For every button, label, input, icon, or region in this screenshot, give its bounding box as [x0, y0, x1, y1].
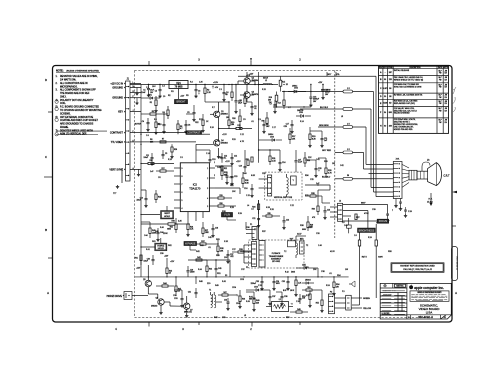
wire cable dashed [334, 71, 336, 239]
inductor L2 box [266, 299, 293, 312]
IC2 pin left 1 [174, 168, 183, 170]
wire q1 base [205, 97, 214, 114]
CRT gnd b [399, 199, 403, 211]
resistor R33x [325, 162, 333, 178]
label scatter12 [286, 317, 289, 319]
value label3 +12V32 [170, 261, 175, 263]
value label .01 [329, 273, 333, 275]
svg-text:METRIC: METRIC [396, 286, 404, 288]
svg-text:8: 8 [182, 176, 183, 178]
resistor R32 [304, 152, 310, 167]
svg-text:VERT SYNC: VERT SYNC [109, 168, 123, 171]
svg-text:180: 180 [226, 117, 229, 119]
svg-text:REPL/ADDED CAP (D/C): REPL/ADDED CAP (D/C) [394, 102, 415, 105]
connector J1 pin 2 [130, 91, 141, 93]
resistor R27 [202, 222, 210, 237]
value label3 C.1348 [218, 157, 222, 159]
svg-text:TTL VIDEO: TTL VIDEO [111, 141, 123, 144]
svg-text:C.15: C.15 [246, 195, 250, 197]
capacitor C26f [342, 218, 351, 233]
resistor R12b [195, 114, 204, 132]
value label3 C.10 [146, 87, 149, 89]
resistor R54x [332, 276, 339, 295]
value label3 R.1621 [168, 159, 172, 161]
diode CR4x [252, 286, 266, 291]
value label3 R.4030 [160, 227, 164, 229]
svg-text:0.1: 0.1 [224, 158, 226, 160]
svg-text:R.39: R.39 [238, 213, 242, 215]
label BRIGHTNESS [358, 228, 376, 232]
value label C39 [372, 209, 377, 211]
svg-text:+11V DC IN: +11V DC IN [110, 83, 123, 86]
resistor R16b [268, 92, 278, 108]
wire mid h1 [235, 85, 237, 91]
svg-text:J: J [133, 110, 134, 112]
pot HORIZ HOLD [155, 243, 167, 251]
connector J2 wire 3 [343, 216, 351, 225]
svg-text:C19: C19 [239, 165, 242, 167]
svg-text:R.45: R.45 [222, 281, 226, 283]
CRT anode wire [422, 160, 430, 172]
svg-text:2: 2 [214, 175, 215, 177]
svg-text:L3: L3 [341, 116, 343, 118]
value label C37 [241, 269, 246, 271]
svg-text:1N914: 1N914 [268, 134, 273, 136]
wire y140 seg [259, 139, 290, 141]
value label 3.3K [224, 241, 229, 243]
capacitor C10 [136, 190, 147, 207]
svg-text:C36: C36 [284, 296, 287, 298]
label GRY YEL top [327, 74, 341, 76]
svg-text:NLP: NLP [439, 101, 442, 103]
capacitor C31 [188, 288, 198, 298]
ground J1 stub a [135, 88, 138, 96]
svg-text:R9: R9 [225, 94, 227, 96]
svg-text:R20: R20 [219, 203, 222, 205]
value label3 +11V7 [246, 75, 251, 77]
value label3 C.3638 [296, 301, 300, 303]
value label3 C.1449 [206, 153, 210, 155]
resistor R35b [305, 193, 322, 197]
capacitor C40x [343, 234, 345, 238]
connector CRT socket [393, 162, 402, 199]
label scatter11 [244, 315, 246, 317]
capacitor C12 [235, 96, 243, 106]
label scatter6 [160, 253, 163, 255]
svg-text:2W: 2W [269, 102, 272, 104]
IC2 pin right 2 [207, 178, 215, 180]
svg-text:7L4309: 7L4309 [383, 103, 388, 105]
connector J1 pin GROUND [112, 86, 141, 90]
zone tick right [452, 225, 456, 227]
label FOCUS [377, 219, 388, 223]
svg-text:78 M05: 78 M05 [175, 85, 184, 88]
value label R49 [215, 285, 220, 287]
value label3 10uF1 [150, 89, 155, 91]
flyback dashed box [249, 240, 304, 268]
resistor R46 [238, 290, 245, 308]
wire y120 seg [163, 113, 164, 120]
svg-text:R50: R50 [286, 317, 289, 319]
capacitor C5 [162, 150, 168, 159]
capacitor C3 [195, 85, 201, 95]
wire f mid [282, 273, 284, 277]
svg-text:470K: 470K [364, 213, 369, 215]
svg-text:C.3: C.3 [219, 89, 222, 91]
node j3 [195, 84, 196, 85]
zone tick left 3 [48, 257, 53, 259]
resistor R11 [236, 125, 252, 129]
svg-text:B: B [45, 228, 47, 232]
value label 470K [364, 213, 369, 215]
wire q4 col [217, 148, 220, 158]
capacitor C13 [221, 153, 228, 163]
label scatter5 [305, 175, 308, 177]
svg-text:+12V: +12V [225, 161, 230, 163]
zone letter D left [45, 78, 47, 82]
transistor Q3 [244, 92, 258, 99]
ground C3 [194, 95, 197, 98]
svg-text:HORIZ DRIVE: HORIZ DRIVE [107, 295, 123, 298]
value label 6.8K [251, 175, 256, 177]
capacitor C15x [230, 172, 237, 185]
svg-text:9.0: 9.0 [384, 125, 386, 127]
wire t1 leads [204, 296, 222, 303]
value label R38 [300, 225, 305, 227]
value label3 C.1717 [272, 127, 276, 129]
highest ref designation box [391, 263, 444, 273]
svg-text:Q5: Q5 [143, 279, 146, 281]
resistor R16 [141, 160, 174, 164]
svg-text:+12V: +12V [236, 161, 241, 163]
value label R36 [246, 227, 251, 229]
svg-text:C13: C13 [212, 159, 215, 161]
wire q3 emitter [250, 92, 254, 96]
svg-text:R2: R2 [168, 95, 170, 97]
resistor R17x [289, 128, 296, 144]
node j5 [228, 84, 229, 85]
svg-text:R47: R47 [223, 292, 226, 294]
ground C16 [309, 104, 312, 107]
wire ttl video [141, 141, 196, 143]
transistor Q1 [214, 111, 228, 118]
capacitor C11 [143, 153, 153, 165]
resistor R18x [232, 109, 241, 129]
capacitor C45x [215, 264, 222, 278]
wire focus down R [375, 224, 377, 240]
svg-text:R48: R48 [214, 317, 217, 319]
svg-text:T.1: T.1 [236, 295, 238, 297]
svg-text:R.41: R.41 [146, 249, 150, 251]
connector HORIZ DRIVE pin box [124, 292, 132, 300]
svg-text:R39: R39 [239, 249, 242, 251]
svg-text:100uF: 100uF [143, 261, 148, 263]
svg-text:C4: C4 [142, 121, 144, 123]
svg-text:8/2: 8/2 [389, 103, 391, 105]
capacitor C25f [386, 214, 390, 222]
svg-text:220: 220 [256, 302, 259, 304]
resistor R38x [217, 240, 224, 256]
svg-text:R12: R12 [195, 122, 198, 124]
wire vsync in [141, 163, 148, 165]
value label C8 [158, 177, 161, 179]
resistor R27f [358, 240, 367, 305]
resistor R45 [175, 280, 181, 295]
wire y107 link [273, 106, 311, 107]
ground at J1 [113, 168, 122, 195]
svg-text:1M: 1M [332, 163, 335, 165]
capacitor C37x [268, 292, 275, 305]
svg-text:C10: C10 [140, 197, 143, 199]
connector J1 pin CONTRAST [110, 131, 141, 135]
svg-text:R43: R43 [169, 270, 172, 272]
label GRY/RED [322, 150, 332, 152]
node j0 [148, 84, 149, 85]
svg-text:C23: C23 [327, 210, 330, 212]
value label3 R.411 [154, 119, 157, 121]
label +5V [212, 86, 219, 90]
svg-text:R26: R26 [190, 226, 193, 228]
resistor R49a [252, 292, 259, 311]
value label R37 [262, 231, 267, 233]
value label +12V [225, 161, 230, 163]
value label3 R.79 [212, 107, 215, 109]
svg-text:BLK BLU: BLK BLU [322, 177, 331, 179]
capacitor C23 [323, 206, 330, 219]
capacitor C13b [209, 155, 216, 163]
value label 33 [225, 275, 228, 277]
svg-text:3.3K: 3.3K [224, 241, 229, 243]
value label R39 [216, 255, 221, 257]
value label 1K [206, 121, 209, 123]
svg-text:apple computer inc.: apple computer inc. [414, 286, 444, 290]
wire p1 feed [246, 222, 252, 234]
wire hsync chain [189, 144, 196, 150]
wire j2 leads [330, 207, 338, 217]
wire CRT lead 4 [366, 127, 394, 164]
value label3 41.5V44 [330, 251, 335, 253]
value label3 18014 [226, 117, 229, 119]
value label R54 [337, 275, 342, 277]
label socket [396, 159, 401, 161]
capacitor C36b [280, 292, 287, 305]
wire reg down [178, 89, 180, 100]
resistor R36x [242, 172, 250, 188]
svg-text:R.10: R.10 [210, 127, 214, 129]
svg-text:VERTICAL DEF YOKE: VERTICAL DEF YOKE [274, 196, 293, 199]
svg-text:P1: P1 [246, 267, 248, 269]
svg-text:R34: R34 [252, 206, 255, 208]
value label3 C.520 [180, 157, 183, 159]
value label3 600V46 [302, 229, 307, 231]
flyback top box [288, 239, 296, 247]
svg-text:C18: C18 [215, 227, 218, 229]
svg-text:R18: R18 [232, 118, 235, 120]
wire fly right link [296, 258, 319, 278]
value label C9 [243, 119, 246, 121]
label box H PHASE [184, 242, 197, 246]
capacitor C27 [295, 156, 303, 166]
svg-text:R.16: R.16 [168, 159, 172, 161]
svg-text:C.22: C.22 [290, 205, 294, 207]
svg-text:CR5: CR5 [302, 264, 306, 266]
svg-text:600V: 600V [378, 257, 383, 259]
resistor R21 [221, 163, 227, 171]
svg-text:C16: C16 [244, 188, 247, 190]
value label R51 [217, 273, 222, 275]
svg-text:CR2: CR2 [294, 88, 298, 90]
svg-text:R14: R14 [278, 102, 281, 104]
CRT cap C24 [388, 198, 412, 217]
wire x284 from bus [283, 85, 285, 92]
svg-text:R27 K: R27 K [362, 257, 368, 259]
resistor R10 [228, 114, 234, 129]
svg-text:R3: R3 [152, 111, 154, 113]
wire contrast out [202, 133, 211, 135]
label R05 [249, 297, 255, 301]
svg-text:R46: R46 [242, 298, 245, 300]
svg-text:2.2uF: 2.2uF [298, 162, 302, 164]
wire y222 seg [141, 221, 150, 223]
value label 16V [152, 86, 156, 88]
wire top GRY-YEL bus [238, 75, 376, 77]
label YELLOW [363, 308, 371, 310]
svg-text:600V: 600V [361, 202, 366, 204]
value label R42 [196, 251, 201, 253]
value label C9a [173, 295, 178, 297]
value label 22 [254, 229, 257, 231]
svg-text:C.12: C.12 [240, 134, 244, 136]
node j10 [140, 144, 141, 145]
resistor R23c [155, 190, 161, 203]
wire p3 links [335, 298, 346, 308]
IC2 pin left 2 [174, 176, 183, 178]
value label C40 [344, 225, 349, 227]
value label 10K [232, 191, 236, 193]
value label3 R.5239 [306, 295, 310, 297]
wire d link [304, 167, 306, 172]
svg-text:C30: C30 [160, 253, 163, 255]
svg-text:C45: C45 [218, 268, 221, 270]
resistor R44 [206, 260, 212, 277]
zone label bottom a [182, 327, 184, 331]
value label3 R.2824 [230, 207, 234, 209]
node j17 [243, 276, 244, 277]
yoke connector pins [268, 175, 272, 196]
wire y160 seg [305, 158, 326, 164]
svg-text:T.2: T.2 [284, 251, 286, 253]
value label3 16V2 [150, 92, 154, 94]
value label L4 [247, 205, 250, 207]
wire bottom loop [352, 298, 376, 305]
flyback conn2 [300, 238, 305, 254]
value label3 C.042 [354, 235, 357, 237]
label +12d [164, 256, 169, 262]
title block [380, 283, 451, 319]
wire vsync long [141, 164, 156, 172]
value label3 R.4534 [222, 281, 226, 283]
svg-text:C.0: C.0 [354, 235, 357, 237]
capacitor C27x [226, 250, 233, 263]
svg-text:CONTRAST: CONTRAST [187, 132, 201, 135]
svg-text:V LIN: V LIN [224, 214, 230, 217]
value label .022 [240, 251, 245, 253]
svg-text:R42: R42 [197, 257, 200, 259]
pot VERT HOLD [161, 211, 174, 219]
svg-text:R.49: R.49 [246, 301, 250, 303]
resistor R41 [135, 247, 142, 265]
IC2 pin right 5 [207, 206, 215, 208]
svg-text:L2: L2 [279, 299, 281, 301]
svg-text:1: 1 [207, 168, 208, 170]
svg-text:R34: R34 [305, 175, 308, 177]
value label R59 [324, 161, 329, 163]
svg-text:C15: C15 [234, 176, 237, 178]
resistor R37x [194, 241, 219, 245]
value label 1M [332, 163, 335, 165]
wire k1 [234, 84, 237, 113]
resistor R5b [247, 154, 249, 166]
svg-text:R18: R18 [158, 196, 161, 198]
svg-text:C.17: C.17 [272, 127, 276, 129]
value label C27 [232, 249, 237, 251]
svg-text:R.12: R.12 [285, 271, 289, 273]
value label R60 [243, 173, 248, 175]
svg-text:2200uF: 2200uF [251, 283, 256, 285]
svg-text:C27: C27 [298, 160, 301, 162]
capacitor C5a [187, 108, 196, 121]
wire x258 vertical [258, 72, 260, 163]
transistor Q4 [214, 140, 228, 146]
label box V LIN [222, 213, 233, 217]
label 41V [283, 290, 295, 292]
zone letter C left [45, 155, 47, 159]
connector J1 pin VERT SYNC [109, 167, 141, 172]
flyback second column [259, 241, 265, 268]
capacitor C21b [157, 120, 166, 133]
node q1q4 [218, 125, 236, 132]
svg-text:C.0: C.0 [342, 222, 345, 224]
resistor R20b [154, 114, 161, 134]
svg-text:H.V.: H.V. [429, 199, 433, 201]
svg-text:POLARITY DOT ON LINEARITY: POLARITY DOT ON LINEARITY [60, 99, 94, 102]
svg-text:BLK BLK: BLK BLK [320, 107, 329, 109]
value label3 R.3527 [270, 209, 274, 211]
svg-text:150K: 150K [163, 233, 168, 235]
svg-text:CR4: CR4 [236, 303, 240, 305]
value label3 R.3926 [238, 213, 242, 215]
node j11 [140, 163, 141, 164]
wire board outline dashed bottom [135, 317, 431, 319]
inductor L1 [259, 78, 278, 85]
svg-text:C13: C13 [224, 155, 227, 157]
node j18 [295, 276, 296, 277]
svg-text:GROUND: GROUND [112, 97, 123, 100]
svg-text:R1: R1 [150, 102, 152, 104]
capacitor C34 [272, 276, 280, 290]
wire y292 seg [246, 291, 282, 293]
value label 220 [207, 283, 211, 285]
svg-text:C.36: C.36 [296, 301, 300, 303]
svg-text:NOW, R33 C43 WHERE 10 OHM: NOW, R33 C43 WHERE 10 OHM [394, 87, 422, 89]
svg-text:ALL COMPONENTS SHOWN OFF: ALL COMPONENTS SHOWN OFF [60, 89, 96, 92]
wire q7 net [170, 296, 188, 317]
svg-text:R.52: R.52 [306, 295, 310, 297]
diode CR2 [288, 85, 306, 93]
svg-text:C35: C35 [282, 281, 285, 283]
resistor R39x [232, 249, 252, 253]
svg-text:R.7: R.7 [212, 107, 215, 109]
